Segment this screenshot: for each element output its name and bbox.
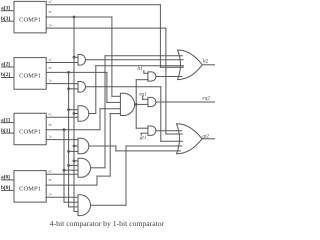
svg-text:=: = <box>48 65 52 72</box>
svg-text:=: = <box>48 122 52 129</box>
svg-text:a[2]: a[2] <box>1 62 10 68</box>
svg-text:b[3]: b[3] <box>1 16 10 22</box>
svg-text:lt1: lt1 <box>137 66 143 72</box>
svg-text:4-bit comparator by 1-bit comp: 4-bit comparator by 1-bit comparator <box>50 219 165 228</box>
svg-text:<: < <box>48 57 52 64</box>
svg-text:b[1]: b[1] <box>1 128 10 134</box>
svg-text:COMP1: COMP1 <box>19 16 41 23</box>
svg-text:<: < <box>48 0 52 6</box>
svg-text:a[1]: a[1] <box>1 117 10 123</box>
svg-text:b[0]: b[0] <box>1 185 10 191</box>
svg-text:gt2: gt2 <box>202 133 209 139</box>
svg-text:lt2: lt2 <box>203 58 209 64</box>
svg-text:>: > <box>48 78 52 85</box>
svg-text:=: = <box>48 9 52 16</box>
svg-text:=: = <box>48 178 52 185</box>
svg-text:eq1: eq1 <box>139 92 147 98</box>
svg-text:COMP1: COMP1 <box>19 128 41 135</box>
svg-text:eq2: eq2 <box>202 96 210 102</box>
svg-text:a[3]: a[3] <box>1 5 10 11</box>
svg-text:>: > <box>48 134 52 141</box>
svg-text:<: < <box>48 169 52 176</box>
svg-text:>: > <box>48 192 52 199</box>
svg-text:<: < <box>48 112 52 119</box>
svg-text:b[2]: b[2] <box>1 72 10 78</box>
svg-text:>: > <box>48 22 52 29</box>
svg-text:a[0]: a[0] <box>1 175 10 181</box>
svg-text:COMP1: COMP1 <box>19 73 41 80</box>
svg-text:COMP1: COMP1 <box>19 186 41 193</box>
svg-text:gt1: gt1 <box>140 135 147 141</box>
